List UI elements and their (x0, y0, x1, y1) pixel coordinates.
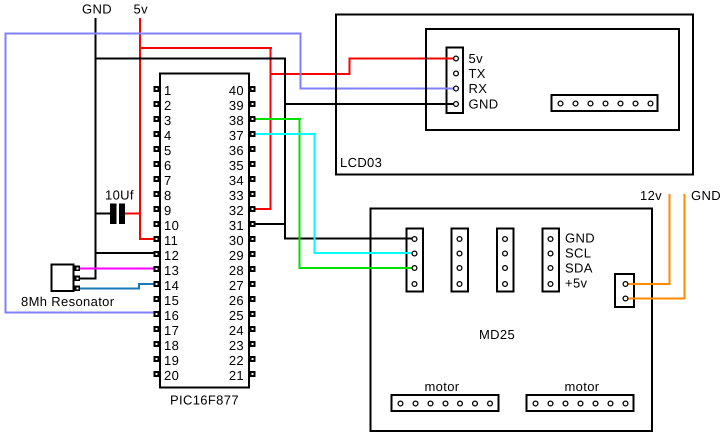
svg-text:18: 18 (164, 338, 179, 353)
svg-text:13: 13 (164, 263, 179, 278)
svg-text:motor: motor (565, 379, 600, 394)
wire cyan vertical x=314.5 (314, 133, 316, 254)
svg-text:8: 8 (164, 188, 172, 203)
svg-text:PIC16F877: PIC16F877 (170, 393, 239, 408)
wire blue resonator pin3 horizontal (78, 288, 140, 290)
svg-text:MD25: MD25 (479, 327, 515, 342)
svg-text:RX: RX (469, 81, 488, 96)
wire red vertical x=270.5 (270, 47, 272, 210)
MD25 I2C connector 2 box (452, 229, 469, 292)
svg-text:22: 22 (229, 353, 244, 368)
LCD03 expansion header box (552, 95, 658, 111)
svg-text:21: 21 (229, 368, 244, 383)
MD25 I2C connector 1 box (407, 229, 424, 292)
wire red vertical step x=349.5 (349, 58, 351, 76)
svg-text:TX: TX (469, 66, 486, 81)
wire cyan to MD25 SCL pin (314, 252, 415, 254)
svg-text:38: 38 (229, 113, 244, 128)
svg-text:5: 5 (164, 143, 172, 158)
module MD25 outer box (371, 209, 653, 432)
svg-text:SCL: SCL (565, 246, 591, 261)
wire resonator middle pin to GND (78, 278, 97, 280)
wire GND bus vertical x=285 (284, 58, 286, 240)
svg-text:25: 25 (229, 308, 244, 323)
wire GND to PIC pin12 (95, 252, 156, 254)
wire capacitor right to 5v (red) (124, 213, 141, 215)
wire PIC pin31 to GND bus (255, 223, 286, 225)
U1 pin numbers 40-21 (229, 83, 244, 383)
wire 5v to PIC pin11 (red) (139, 238, 155, 240)
wire purple bottom to PIC pin16 (5, 312, 155, 314)
capacitor C1 plate right (119, 204, 125, 225)
wire green vertical x=299.5 (299, 118, 301, 269)
U1 left pin pads 1-20 (154, 86, 160, 377)
svg-text:23: 23 (229, 338, 244, 353)
wire blue vertical jog (138, 283, 140, 290)
svg-text:+5v: +5v (565, 276, 588, 291)
wire GND to LCD03 GND pin (284, 103, 457, 105)
svg-text:39: 39 (229, 98, 244, 113)
MD25 I2C connector 3 pins (503, 237, 508, 287)
wire purple top horizontal (5, 33, 302, 35)
capacitor C1 plate left (110, 204, 117, 225)
svg-text:30: 30 (229, 233, 244, 248)
svg-text:37: 37 (229, 128, 244, 143)
svg-text:33: 33 (229, 188, 244, 203)
MD25 I2C connector 4 pins (548, 237, 553, 287)
wire purple to LCD03 RX pin (300, 88, 457, 90)
svg-text:40: 40 (229, 83, 244, 98)
wire purple vertical x=300.5 (300, 33, 302, 89)
wire magenta resonator pin1 to PIC pin13 (78, 268, 155, 270)
MD25 I2C connector 3 box (497, 229, 514, 292)
svg-text:8Mh Resonator: 8Mh Resonator (21, 294, 115, 309)
wire red branch to LCD03 horizontal y=74 (270, 73, 351, 75)
U1 right pin pads 40-21 (250, 86, 256, 377)
MD25 motor connector 2 box (527, 395, 634, 411)
svg-text:2: 2 (164, 98, 172, 113)
MD25 I2C connector 4 box (543, 229, 560, 292)
svg-text:5v: 5v (134, 2, 149, 17)
wire orange 12v to power pin1 (626, 283, 670, 285)
MD25 I2C connector 2 pins (457, 237, 462, 287)
wire orange 12v vertical (669, 194, 671, 285)
wire GND bus to MD25 connector pin1 (284, 238, 415, 240)
LCD03 inner board box (426, 29, 679, 130)
svg-text:GND: GND (82, 2, 112, 17)
svg-text:10: 10 (164, 218, 179, 233)
svg-text:12: 12 (164, 248, 179, 263)
svg-text:SDA: SDA (565, 261, 593, 276)
svg-text:16: 16 (164, 308, 179, 323)
svg-text:24: 24 (229, 323, 244, 338)
svg-text:15: 15 (164, 293, 179, 308)
wire 5v branch horizontal y=48 (red) (139, 47, 272, 49)
svg-text:26: 26 (229, 293, 244, 308)
svg-text:GND: GND (469, 97, 499, 112)
LCD03 expansion header pins (558, 101, 653, 106)
U1 pin numbers 1-20 (164, 83, 179, 383)
svg-text:11: 11 (164, 233, 178, 248)
svg-text:motor: motor (425, 379, 460, 394)
svg-text:29: 29 (229, 248, 244, 263)
MD25 power connector box (615, 274, 634, 307)
svg-text:36: 36 (229, 143, 244, 158)
svg-text:27: 27 (229, 278, 244, 293)
svg-text:35: 35 (229, 158, 244, 173)
svg-text:28: 28 (229, 263, 244, 278)
MD25 I2C connector 1 pins (412, 237, 417, 287)
wire purple left vertical (5, 33, 7, 314)
LCD03 serial connector pins (454, 56, 459, 106)
MD25 power connector pins (623, 282, 628, 301)
MD25 motor connector 2 pins (533, 401, 628, 406)
wire GND to capacitor left (95, 213, 112, 215)
svg-text:1: 1 (164, 83, 172, 98)
wire orange GND to power pin2 (626, 298, 685, 300)
wire green PIC pin38 horizontal (255, 118, 301, 120)
svg-text:6: 6 (164, 158, 172, 173)
LCD03 serial connector box (447, 48, 464, 114)
MD25 motor connector 1 pins (398, 401, 492, 406)
svg-text:10Uf: 10Uf (105, 188, 134, 203)
svg-text:17: 17 (164, 323, 179, 338)
module LCD03 outer box (336, 15, 693, 175)
svg-text:32: 32 (229, 203, 244, 218)
wire red to PIC pin32 (255, 208, 271, 210)
wire 5v vertical main (red) (139, 18, 141, 240)
wire blue to PIC pin14 (138, 283, 155, 285)
wire GND vertical main (95, 18, 97, 280)
svg-text:4: 4 (164, 128, 172, 143)
svg-text:3: 3 (164, 113, 172, 128)
chip U1 PIC16F877 body (160, 74, 249, 388)
svg-text:7: 7 (164, 173, 172, 188)
svg-text:14: 14 (164, 278, 179, 293)
resonator X1 body (52, 265, 74, 292)
svg-text:9: 9 (164, 203, 172, 218)
wire GND horizontal to x=285 (95, 58, 287, 60)
svg-text:19: 19 (164, 353, 179, 368)
svg-text:LCD03: LCD03 (340, 155, 382, 170)
wire red to LCD03 5v pin (349, 58, 457, 60)
svg-text:34: 34 (229, 173, 244, 188)
svg-text:12v: 12v (640, 188, 662, 203)
wire cyan PIC pin37 horizontal (255, 133, 316, 135)
wire green to MD25 SDA pin (299, 267, 415, 269)
svg-text:GND: GND (565, 231, 595, 246)
X1 pin pads (75, 266, 81, 292)
svg-text:31: 31 (229, 218, 244, 233)
MD25 motor connector 1 box (392, 395, 499, 411)
wire orange GND vertical (684, 194, 686, 299)
svg-text:5v: 5v (469, 51, 484, 66)
svg-text:GND: GND (691, 188, 721, 203)
svg-text:20: 20 (164, 368, 179, 383)
